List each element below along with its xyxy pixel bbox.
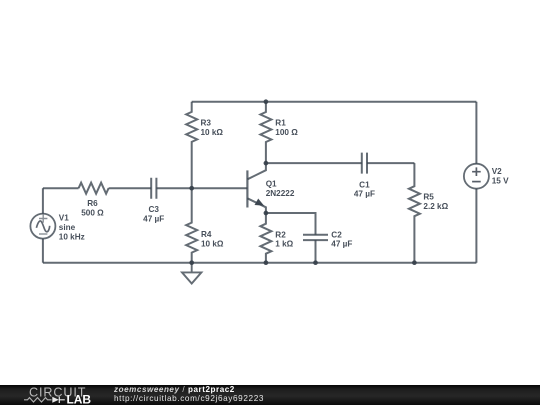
svg-text:R3: R3 — [201, 119, 212, 128]
footer bar — [0, 385, 540, 405]
V1 minus — [39, 233, 47, 235]
resistor R2 — [260, 213, 271, 263]
node collector — [264, 161, 269, 166]
node ground rail — [189, 260, 194, 265]
svg-text:47 µF: 47 µF — [331, 240, 352, 249]
wire V1 bottom lead — [42, 239, 44, 263]
resistor R4 — [186, 188, 197, 263]
wire C1 to R5 — [367, 162, 414, 164]
svg-text:V2: V2 — [492, 167, 502, 176]
capacitor C1 — [362, 153, 367, 174]
resistor R5 — [409, 163, 420, 263]
wire R6 to C3 — [109, 187, 152, 189]
capacitor C3 — [151, 178, 156, 199]
node emitter — [264, 211, 269, 216]
svg-text:R6: R6 — [87, 199, 98, 208]
resistor R1 — [260, 102, 271, 163]
svg-text:Q1: Q1 — [266, 179, 277, 188]
wire emitter to C2 — [266, 213, 316, 235]
resistor R3 — [186, 102, 197, 188]
svg-text:R5: R5 — [423, 193, 434, 202]
node C2 bottom — [313, 260, 318, 265]
wire node to base — [192, 187, 248, 189]
node base-divider — [189, 186, 194, 191]
svg-text:2N2222: 2N2222 — [266, 189, 295, 198]
logo zigzag resistor — [24, 398, 52, 402]
svg-text:10 kHz: 10 kHz — [59, 232, 85, 241]
logo diode — [52, 397, 59, 403]
svg-text:R4: R4 — [201, 230, 212, 239]
source V2 — [464, 164, 489, 189]
junction dots — [189, 99, 416, 265]
node R5 bottom — [412, 260, 417, 265]
svg-text:C2: C2 — [331, 230, 342, 239]
svg-text:2.2 kΩ: 2.2 kΩ — [423, 202, 448, 211]
svg-text:R2: R2 — [275, 230, 286, 239]
transistor Q1 collector/emitter — [247, 163, 266, 213]
wire C3 to node — [156, 187, 191, 189]
svg-text:10 kΩ: 10 kΩ — [201, 128, 224, 137]
svg-text:500 Ω: 500 Ω — [81, 209, 104, 218]
ground — [182, 263, 201, 284]
wire C2 to bottom rail — [315, 240, 317, 263]
wire bottom rail — [43, 262, 477, 264]
wire V1 to R6 — [43, 187, 79, 189]
svg-text:100 Ω: 100 Ω — [275, 128, 298, 137]
capacitor C2 — [303, 235, 328, 240]
node R2 bottom — [264, 260, 269, 265]
V1 plus — [39, 214, 47, 222]
V2 minus — [472, 181, 481, 183]
svg-text:15 V: 15 V — [492, 177, 509, 186]
V1 sine — [36, 221, 49, 232]
wire V2 bottom lead — [475, 189, 477, 263]
svg-text:47 µF: 47 µF — [354, 190, 375, 199]
resistor R6 — [79, 183, 109, 194]
source V1 — [30, 214, 55, 239]
svg-text:10 kΩ: 10 kΩ — [201, 240, 224, 249]
svg-text:C3: C3 — [148, 205, 159, 214]
wire V1 top lead — [42, 188, 44, 214]
wire collector to C1 — [266, 162, 362, 164]
svg-text:sine: sine — [59, 223, 76, 232]
transistor Q1 body — [246, 170, 248, 207]
wire V2 top lead — [475, 102, 477, 164]
V2 plus — [472, 167, 481, 176]
node R1 top — [264, 99, 269, 104]
wire top rail — [192, 101, 477, 103]
svg-text:C1: C1 — [359, 180, 370, 189]
Q1 emitter arrow — [255, 200, 263, 206]
svg-text:1 kΩ: 1 kΩ — [275, 240, 293, 249]
svg-text:V1: V1 — [59, 213, 69, 222]
svg-text:R1: R1 — [275, 119, 286, 128]
svg-text:47 µF: 47 µF — [143, 215, 164, 224]
